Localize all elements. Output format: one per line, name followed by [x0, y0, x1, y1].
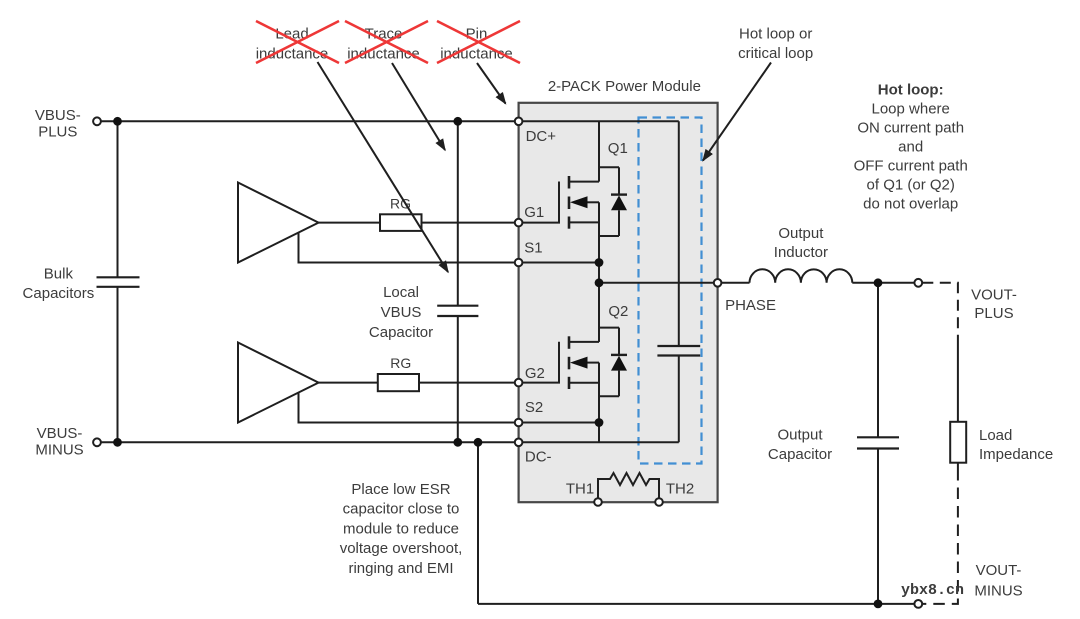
svg-text:PLUS: PLUS	[38, 124, 77, 141]
svg-text:TH1: TH1	[566, 480, 594, 497]
hot loop dashed boundary	[639, 118, 702, 464]
svg-text:do not overlap: do not overlap	[863, 196, 958, 213]
svg-text:S2: S2	[525, 399, 543, 416]
svg-text:inductance: inductance	[256, 46, 329, 63]
wire S1 return	[299, 233, 600, 263]
svg-text:Q2: Q2	[608, 303, 628, 320]
wire load top	[957, 339, 959, 422]
arrow hot loop label to dashed loop	[703, 63, 771, 161]
pin DC-	[515, 439, 523, 447]
diode D2 (body)	[611, 328, 627, 397]
svg-text:MINUS: MINUS	[35, 442, 83, 459]
svg-text:VBUS: VBUS	[381, 304, 422, 321]
wire bottom return rail	[478, 603, 915, 605]
wire dashed load to VOUT-	[922, 469, 958, 604]
wire bulk capacitor branch top	[117, 121, 119, 277]
wire VBUS- rail	[97, 441, 679, 443]
capacitor module internal (plates)	[657, 346, 700, 356]
svg-text:DC-: DC-	[525, 449, 552, 466]
svg-text:Bulk: Bulk	[44, 266, 74, 283]
svg-text:MINUS: MINUS	[974, 583, 1022, 600]
svg-text:VOUT-: VOUT-	[976, 562, 1022, 579]
svg-text:Output: Output	[778, 225, 824, 242]
wire load bottom stub	[957, 463, 959, 469]
svg-text:Output: Output	[777, 426, 823, 443]
arrow trace inductance to branch	[392, 63, 445, 150]
red X over trace inductance	[345, 21, 428, 63]
inductor L1 (output)	[750, 269, 853, 283]
svg-text:PHASE: PHASE	[725, 297, 776, 314]
wire VBUS+ rail	[97, 120, 679, 122]
svg-text:Hot loop:: Hot loop:	[878, 82, 944, 99]
capacitor local VBUS (plates)	[437, 306, 478, 316]
terminal VBUS-MINUS	[93, 438, 101, 446]
capacitor bulk (plates)	[97, 277, 140, 287]
wire dashed VOUT+ to load	[922, 283, 958, 339]
resistor RG2	[378, 374, 419, 391]
pin S2	[515, 419, 523, 427]
svg-text:Loop where: Loop where	[871, 101, 949, 118]
svg-text:PLUS: PLUS	[974, 305, 1013, 322]
pin G2	[515, 379, 523, 387]
wire down branch to bottom rail	[477, 442, 479, 604]
resistor RG1	[380, 214, 422, 231]
svg-text:ybx8.cn: ybx8.cn	[901, 582, 964, 599]
svg-text:G2: G2	[525, 365, 545, 382]
svg-text:Impedance: Impedance	[979, 446, 1053, 463]
svg-text:ringing and EMI: ringing and EMI	[348, 560, 453, 577]
terminal VOUT-PLUS	[914, 279, 922, 287]
svg-text:VBUS-: VBUS-	[35, 107, 81, 124]
wire G1	[319, 222, 519, 224]
svg-text:2-PACK Power Module: 2-PACK Power Module	[548, 78, 701, 95]
wire internal capacitor to DC-	[678, 356, 680, 443]
svg-text:Load: Load	[979, 427, 1012, 444]
red X over pin inductance	[437, 21, 520, 63]
svg-text:VBUS-: VBUS-	[37, 425, 83, 442]
terminal VBUS-PLUS	[93, 117, 101, 125]
pin TH2	[655, 498, 663, 506]
wire internal DC+ drop to module capacitor	[678, 121, 680, 346]
svg-text:VOUT-: VOUT-	[971, 286, 1017, 303]
svg-text:Inductor: Inductor	[774, 244, 828, 261]
wire output capacitor branch top	[877, 283, 879, 438]
svg-text:Capacitor: Capacitor	[369, 324, 433, 341]
wire G2	[319, 382, 519, 384]
svg-text:G1: G1	[524, 204, 544, 221]
2-PACK power module body	[519, 103, 718, 502]
wire bulk capacitor branch bottom	[117, 287, 119, 443]
wire S2 return	[299, 393, 600, 423]
red X over lead inductance	[256, 21, 339, 63]
svg-text:RG: RG	[390, 355, 411, 371]
svg-text:critical loop: critical loop	[738, 45, 813, 62]
svg-text:Capacitors: Capacitors	[23, 285, 95, 302]
wire inductor to VOUT+ terminal	[852, 282, 914, 284]
diode D1 (body)	[611, 167, 627, 236]
arrow lead inductance to local cap	[318, 62, 449, 272]
svg-text:S1: S1	[524, 240, 542, 257]
svg-text:voltage overshoot,: voltage overshoot,	[340, 540, 463, 557]
svg-text:OFF current path: OFF current path	[854, 158, 968, 175]
arrow pin inductance to module	[477, 63, 506, 104]
svg-text:and: and	[898, 139, 923, 156]
capacitor output (plates)	[857, 437, 899, 448]
svg-text:of Q1 (or Q2): of Q1 (or Q2)	[867, 177, 955, 194]
svg-text:DC+: DC+	[526, 128, 557, 145]
svg-text:capacitor close to: capacitor close to	[343, 501, 460, 518]
gate driver U2 (triangle)	[238, 343, 319, 423]
svg-text:Hot loop or: Hot loop or	[739, 26, 812, 43]
thermistor TH	[598, 473, 659, 502]
svg-text:TH2: TH2	[666, 480, 694, 497]
svg-text:Capacitor: Capacitor	[768, 446, 832, 463]
wire local VBUS capacitor branch bottom	[457, 316, 459, 442]
wire PHASE rail	[599, 282, 750, 284]
svg-text:Place low ESR: Place low ESR	[351, 481, 450, 498]
transistor Q2	[519, 283, 619, 443]
svg-text:Local: Local	[383, 284, 419, 301]
pin DC+	[515, 118, 523, 126]
wire local VBUS capacitor branch top	[457, 121, 459, 305]
pin PHASE	[714, 279, 722, 287]
svg-text:ON current path: ON current path	[857, 120, 964, 137]
svg-text:Q1: Q1	[608, 140, 628, 157]
terminal VOUT-MINUS	[914, 600, 922, 608]
resistor load impedance	[950, 422, 966, 463]
pin TH1	[594, 498, 602, 506]
transistor Q1	[519, 121, 619, 282]
pin S1	[515, 259, 523, 267]
svg-text:module to reduce: module to reduce	[343, 520, 459, 537]
pin G1	[515, 219, 523, 227]
wire output capacitor branch bottom	[877, 449, 879, 604]
gate driver U1 (triangle)	[238, 183, 319, 263]
